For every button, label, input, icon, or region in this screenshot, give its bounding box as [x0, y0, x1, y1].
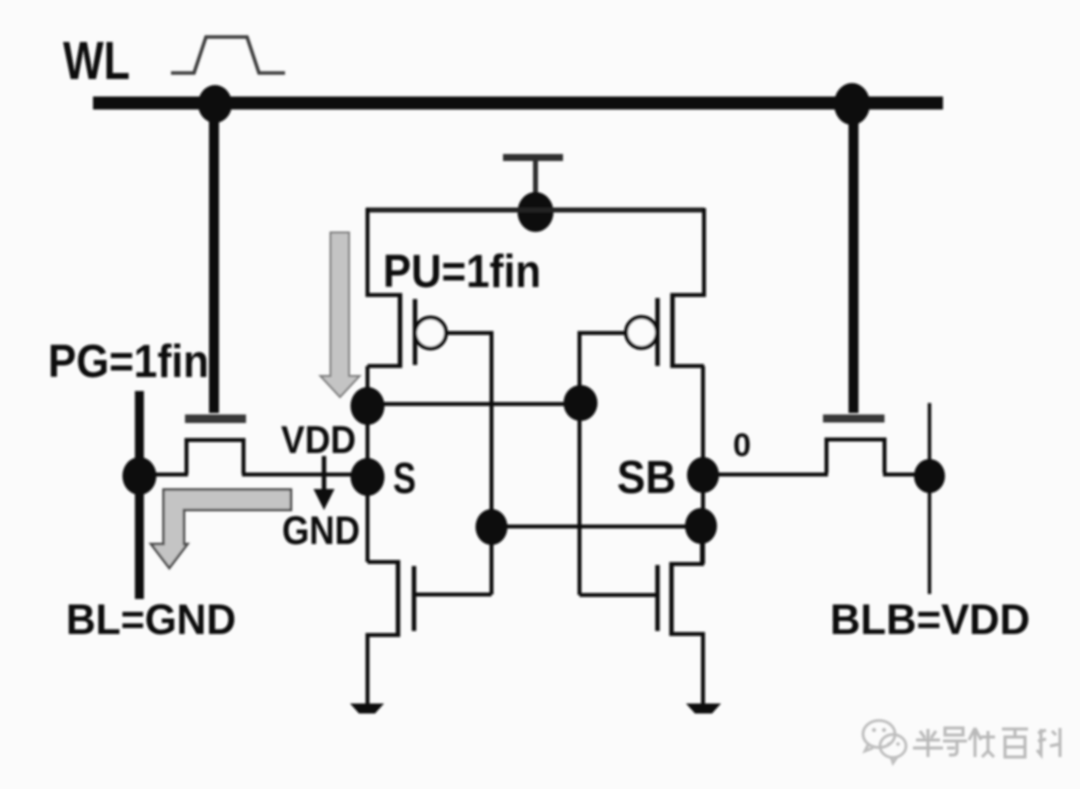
watermark logo (chat bubbles)	[863, 721, 906, 764]
svg-text:SB: SB	[617, 451, 676, 503]
svg-text:VDD: VDD	[281, 419, 356, 462]
svg-text:GND: GND	[282, 509, 360, 553]
wire WL drop to right access gate	[849, 104, 859, 413]
wire cross-couple SB to left gate	[492, 525, 704, 529]
wire rail right corner down	[702, 208, 706, 297]
svg-text:PG=1fin: PG=1fin	[48, 335, 209, 387]
svg-text:BL=GND: BL=GND	[66, 596, 236, 644]
bit line BLB	[928, 403, 932, 594]
wire rail left corner down	[366, 208, 370, 297]
svg-text:0: 0	[733, 427, 751, 463]
wire left inverter output vertical	[366, 366, 370, 562]
wire right inverter gate (to S feedback)	[580, 333, 658, 595]
gray L-shaped arrow (BL discharge)	[151, 490, 291, 569]
transistor PU2 (right PMOS)	[626, 293, 704, 368]
bit line BL	[135, 391, 144, 599]
svg-text:WL: WL	[63, 31, 130, 91]
VDD supply T symbol	[503, 158, 563, 196]
wire right access to BLB	[883, 473, 930, 477]
junction dot WL-right	[834, 83, 870, 125]
svg-text:S: S	[393, 454, 416, 503]
wire SB to right access	[703, 473, 828, 477]
junction dot VDD	[518, 192, 554, 232]
wire PG to S node	[242, 473, 368, 477]
gray write arrow down (left of PU)	[321, 233, 360, 398]
transistor PU1 (left PMOS)	[368, 293, 447, 368]
watermark text (半导体百科 approximation)	[913, 728, 1060, 757]
transistor PG (left access) channel	[187, 440, 244, 474]
transistor PD1 (left NMOS)	[368, 560, 415, 705]
arrow VDD to GND	[322, 456, 327, 492]
junction dot BLB	[914, 459, 945, 493]
junction dot WL-left	[198, 85, 232, 123]
junction dot SB feedback right	[685, 508, 717, 544]
junction dot S upper	[351, 387, 385, 425]
transistor PG right access channel	[827, 440, 885, 474]
wire left inverter gate (to SB feedback)	[414, 333, 492, 595]
wire VDD rail	[366, 208, 704, 213]
wire WL horizontal	[93, 97, 943, 110]
transistor PD2 (right NMOS)	[658, 526, 704, 705]
ground left	[350, 704, 384, 714]
svg-text:PU=1fin: PU=1fin	[383, 245, 541, 297]
transistor PG right access gate bar	[823, 415, 885, 423]
ground right	[686, 704, 721, 714]
transistor PG (left access) gate bar	[185, 415, 246, 424]
wire cross-couple S to right gate	[368, 402, 582, 406]
junction dot S node	[351, 458, 385, 496]
junction dot cross wire right end	[564, 385, 598, 421]
wire WL drop to PG gate	[209, 104, 219, 413]
svg-text:BLB=VDD: BLB=VDD	[830, 596, 1030, 644]
junction dot SB feedback left	[476, 509, 508, 545]
wire right inverter output vertical	[701, 366, 705, 564]
junction dot BL	[122, 457, 156, 495]
junction dot SB node	[687, 457, 719, 493]
wire BL to PG	[137, 473, 188, 477]
WL pulse waveform	[171, 37, 285, 73]
